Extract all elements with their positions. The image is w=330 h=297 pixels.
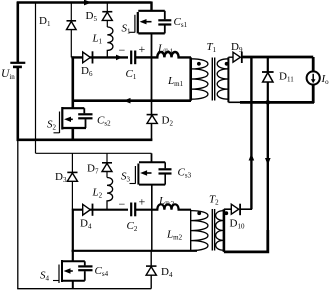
switch S1 [122,2,165,36]
switch S3 [121,153,165,184]
wire S2 vertical riser [72,56,75,108]
capacitor Cs1 [158,11,187,34]
diode D6 [81,51,93,78]
svg-text:−: − [119,43,126,57]
inductor Llk2 [152,195,192,210]
inductor Lm2 branch (box left edge + label) [152,210,183,251]
wire output right + current source Io [307,57,330,103]
wire D11/T2 return vertical [265,102,271,252]
wire second column node A [35,2,37,154]
transformer T1 [191,41,229,103]
diode D9 [228,41,243,63]
switch S4 [40,260,85,289]
capacitor Cs3 [159,162,192,184]
diode D7 [87,153,112,177]
wire lower mid (D4-C2) [72,209,128,211]
wire output bottom [228,101,314,104]
inductor Lm1 branch (box left edge + label) [152,57,184,100]
capacitor C1 [119,42,151,81]
wire output top [242,56,313,59]
switch S2 [47,107,86,140]
capacitor Cs2 [78,108,111,128]
wire lower-half top rail [36,152,152,154]
capacitor Cs4 [78,261,108,280]
inductor L1 [92,27,113,57]
capacitor C2 [119,194,152,233]
wire S4 drain rail (lower mid horizontal) [72,250,198,252]
diode D4 (series) [80,204,93,231]
wire top rail [17,0,152,5]
wire bottom rail upper half [17,139,153,142]
node junction dot [266,100,271,105]
diode D1 [39,3,76,58]
diode D5 [86,3,113,28]
wire upper mid (D6-C1) [71,55,128,61]
diode D10 [224,204,252,231]
wire S1 source [151,33,153,58]
svg-text:+: + [139,194,146,208]
wire S4 vertical riser [72,209,74,262]
wire D10 output vertical [249,57,255,209]
voltage source Uin [1,2,25,142]
diode D4 (clamp, lower right) [146,251,173,289]
wire T2 secondary bottom return [224,230,268,252]
wire left thin column to lower half [17,141,19,289]
transformer T2 [191,193,229,252]
diode D11 [262,57,294,102]
inductor L2 [92,178,113,210]
wire S3 source [151,185,153,210]
diode D2 [147,101,174,140]
svg-text:−: − [119,197,126,211]
wire S2 drain rail (mid horizontal) [72,98,192,104]
diode D3 [55,153,78,209]
wire bottom rail lower half [17,288,151,290]
inductor Llk1 [150,43,191,58]
svg-text:+: + [139,42,146,56]
